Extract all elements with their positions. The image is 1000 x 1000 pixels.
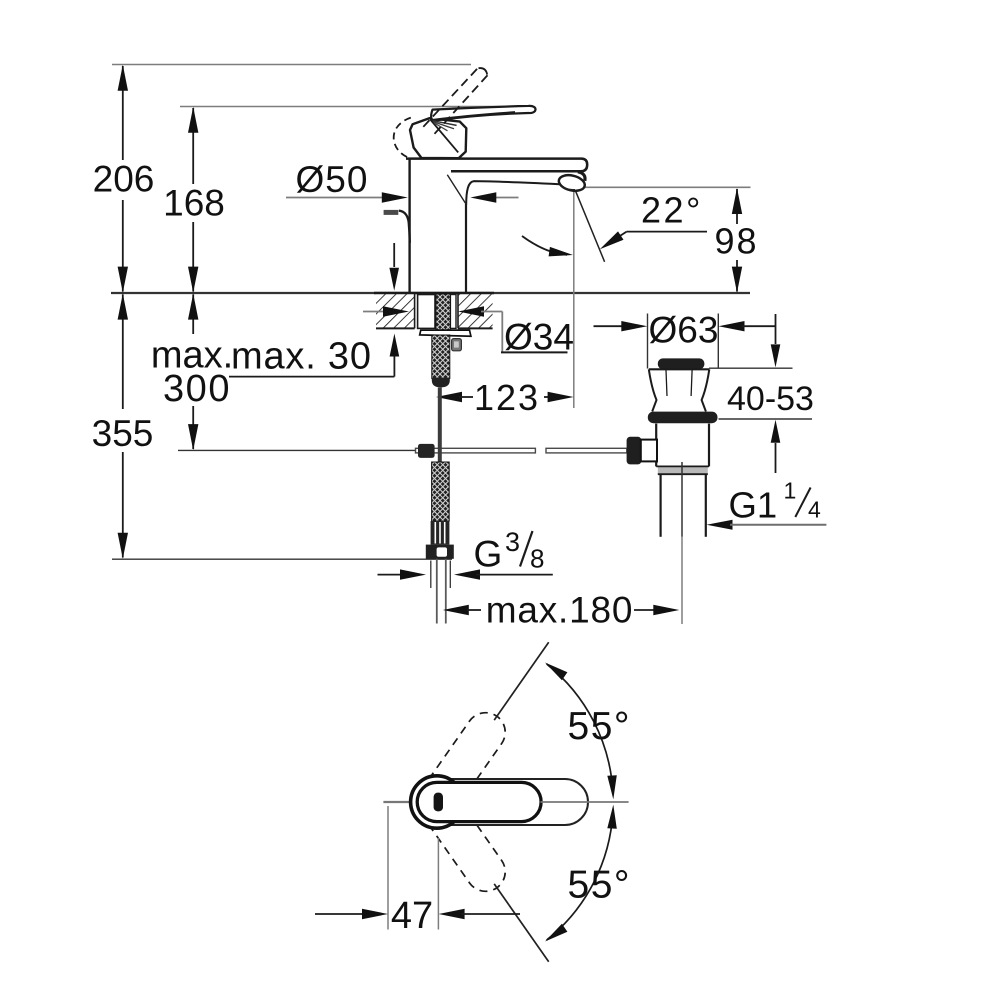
dimension line 355 (122, 294, 124, 409)
hose tube below nut (436, 559, 438, 624)
dimension G3/8 (378, 574, 405, 576)
faucet top cap (406, 159, 587, 172)
dimension line 98 (736, 189, 738, 224)
handle knob shading (433, 121, 457, 126)
svg-text:Ø63: Ø63 (649, 310, 719, 351)
svg-text:168: 168 (163, 183, 225, 224)
water stream line (574, 188, 604, 262)
svg-text:1: 1 (784, 478, 797, 504)
dimension line max.300 (192, 294, 194, 334)
flange underside extension (709, 367, 793, 369)
top view dashed handle rotated up (410, 705, 513, 829)
handle lever inner line (433, 112, 515, 120)
handle knob (410, 118, 466, 158)
handle raised dashed lever (423, 68, 478, 127)
top view dashed handle rotated down (410, 775, 513, 899)
top view 55deg diagonal down (494, 884, 549, 962)
svg-text:123: 123 (474, 377, 540, 418)
threaded stud lower (432, 335, 450, 379)
hose upper section (438, 388, 442, 467)
leader 22deg (627, 231, 707, 233)
label 98bg (713, 226, 760, 257)
top view centerline right (541, 801, 629, 803)
svg-text:3: 3 (505, 527, 520, 557)
top view pivot slot (434, 793, 443, 812)
pull rod right segment (546, 448, 627, 453)
drain flange (649, 368, 710, 370)
mounting strip (450, 295, 456, 329)
drain o-ring (648, 412, 718, 424)
hose ridged fitting (431, 521, 450, 545)
top view lower arc (547, 812, 613, 940)
svg-text:G1: G1 (729, 485, 778, 526)
drain centerline extension (681, 537, 683, 624)
svg-text:98: 98 (714, 221, 758, 262)
svg-text:4: 4 (808, 497, 821, 523)
leader max.30 (229, 376, 394, 378)
svg-text:Ø34: Ø34 (504, 317, 574, 358)
leader Ø50 left (286, 197, 385, 199)
reference line top of handle (206) (112, 64, 471, 66)
pull rod left segment (416, 448, 536, 453)
svg-text:206: 206 (93, 159, 155, 200)
dimension line 206 (122, 66, 124, 160)
leader Ø50 right (493, 197, 519, 199)
dimension 123 (436, 392, 462, 402)
G38 extension ticks (430, 561, 432, 589)
leader Ø34 (363, 311, 386, 313)
body-spout V line (447, 175, 466, 205)
svg-text:47: 47 (391, 895, 433, 937)
top view 55deg diagonal up (494, 642, 549, 720)
label 168 (161, 188, 226, 219)
svg-text:22°: 22° (641, 190, 703, 231)
swing curved arrow (522, 236, 567, 255)
reference line top of body lever (168) (180, 106, 504, 108)
rod knob at drain (627, 437, 642, 465)
dimension Ø63 (594, 325, 625, 327)
counter hatch right (458, 294, 493, 328)
svg-text:300: 300 (163, 368, 231, 410)
dimension max.180 (443, 605, 469, 615)
hose braided section (432, 462, 450, 521)
dimension 47 (315, 913, 366, 915)
label 206 (94, 163, 156, 197)
label max.300 (158, 336, 229, 404)
svg-text:55°: 55° (568, 705, 631, 748)
extension line spout outlet (573, 186, 575, 408)
extension lines Ø63 (647, 314, 649, 369)
top view pivot circle (411, 776, 463, 828)
counter hatch left (376, 294, 415, 328)
handle lever (431, 106, 535, 121)
svg-text:355: 355 (92, 413, 154, 454)
drain tailpipe (659, 474, 661, 537)
svg-text:Ø50: Ø50 (296, 159, 369, 200)
counter top reference line (111, 292, 750, 294)
svg-text:55°: 55° (568, 864, 631, 907)
svg-text:G: G (474, 534, 503, 575)
dimension 40-53 (775, 314, 777, 344)
hose end reference line (355) (112, 558, 452, 560)
top view handle grip (417, 782, 541, 821)
top view outer handle body (414, 779, 588, 825)
mounting sleeve (418, 295, 435, 329)
spout underside (466, 181, 563, 204)
counter surface over hatch (374, 292, 494, 295)
hose nut (426, 545, 454, 559)
svg-text:40-53: 40-53 (727, 380, 814, 418)
handle knob crease (430, 119, 458, 152)
threaded stud upper (436, 294, 450, 332)
top view centerline stub left (383, 801, 412, 803)
oring extension and 40-53 underline (719, 418, 813, 420)
washer under counter (420, 330, 471, 336)
handle raised dashed body arc (394, 118, 411, 159)
dimension line 168 (192, 108, 194, 184)
svg-text:max. 30: max. 30 (231, 336, 372, 378)
rod fitting at hose (418, 444, 435, 458)
faucet body right edge (465, 204, 467, 293)
left side hook curve (399, 211, 410, 243)
top view upper arc (547, 664, 613, 792)
extension lines 47 (387, 806, 389, 930)
spout outlet reference line (98) (581, 186, 751, 188)
svg-text:8: 8 (530, 544, 544, 574)
drain body (655, 424, 657, 467)
label 355 (90, 412, 156, 450)
dimension G1 1/4 (707, 520, 733, 530)
svg-text:max.180: max.180 (486, 590, 634, 631)
left side gray dash (384, 210, 399, 215)
fixing tab (452, 339, 462, 351)
rod cylinder at drain (641, 440, 657, 462)
drain body band (658, 466, 708, 474)
aerator (557, 173, 586, 193)
faucet body left edge (408, 160, 410, 293)
rod level reference line (max.300) (178, 449, 417, 451)
drain plug (658, 358, 705, 369)
